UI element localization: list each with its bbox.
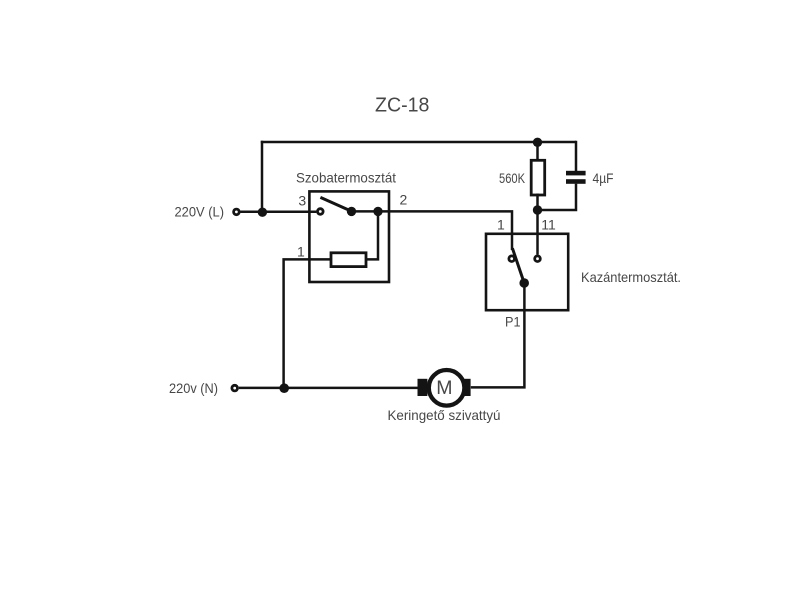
terminal 220v (N) (232, 385, 238, 391)
svg-text:ZC-18: ZC-18 (375, 95, 429, 117)
wire N terminal to motor (239, 387, 418, 390)
svg-text:2: 2 (400, 192, 408, 208)
wire junction up to top bus (261, 141, 264, 212)
switch blade room thermostat (320, 197, 351, 211)
svg-text:Kazántermosztát.: Kazántermosztát. (581, 269, 681, 285)
junction node on N line (279, 383, 289, 393)
wire resistor bottom to lower junction (536, 194, 539, 211)
junction node below resistor (533, 205, 542, 214)
switch pivot node (347, 207, 356, 216)
wire pin 2 to boiler pin 1 (378, 211, 512, 250)
terminal 220V (L) (234, 209, 240, 215)
wire junction to pin 11 (536, 210, 539, 255)
wire top bus (261, 141, 576, 144)
boiler thermostat box (486, 234, 568, 310)
svg-text:3: 3 (298, 192, 306, 208)
wire pivot to pin 2 node (352, 210, 379, 213)
pin 2 node (373, 207, 382, 216)
junction node on L line (258, 208, 267, 217)
junction node top resistor tap (533, 138, 542, 147)
motor M right terminal tab (461, 379, 471, 396)
svg-text:220v (N): 220v (N) (169, 380, 218, 396)
wire top bus to capacitor top (575, 142, 576, 171)
pin 1 contact boiler (509, 256, 515, 262)
svg-text:Szobatermosztát: Szobatermosztát (296, 170, 396, 186)
wire resistor to pin 1 and down to N line (284, 259, 331, 388)
wire junction to resistor top (536, 142, 539, 161)
wire pin 2 node down to anticipator resistor (366, 211, 378, 259)
thermostat box Szobatermosztat (309, 191, 389, 282)
svg-text:220V (L): 220V (L) (175, 204, 225, 220)
svg-text:560K: 560K (499, 170, 526, 186)
svg-text:1: 1 (297, 243, 305, 259)
svg-text:P1: P1 (505, 314, 521, 330)
pin 11 contact boiler (535, 256, 541, 262)
svg-text:M: M (436, 377, 452, 399)
motor M body (429, 370, 465, 406)
svg-text:1: 1 (497, 216, 505, 232)
resistor anticipator in thermostat (331, 253, 366, 267)
svg-text:11: 11 (541, 216, 556, 232)
pin 3 contact (318, 209, 324, 215)
capacitor C 4uF plates (566, 171, 586, 176)
resistor R 560K body (531, 160, 545, 195)
svg-text:Keringető szivattyú: Keringető szivattyú (388, 407, 501, 423)
wire L terminal to pin 3 (240, 211, 316, 214)
wire motor to boiler switch (471, 283, 525, 387)
wire capacitor bottom to lower junction (538, 184, 577, 210)
switch node boiler (519, 278, 529, 288)
motor M left terminal tab (418, 379, 428, 396)
switch blade boiler thermostat (512, 248, 524, 283)
svg-text:4µF: 4µF (593, 170, 614, 186)
